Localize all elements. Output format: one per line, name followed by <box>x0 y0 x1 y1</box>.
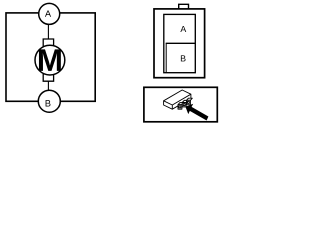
pin B label <box>181 55 186 61</box>
wire A to motor <box>47 24 49 40</box>
inset box <box>144 87 217 122</box>
arrow <box>185 104 208 121</box>
node A <box>39 3 60 24</box>
connector 3d socket block <box>178 98 192 109</box>
pin A label <box>180 26 186 32</box>
connector cavity frame <box>164 14 196 72</box>
connector latch tab <box>179 4 189 9</box>
connector 3d body <box>164 90 191 109</box>
node B <box>38 90 60 112</box>
motor terminal top <box>43 39 53 47</box>
cavity B left wall <box>165 43 167 72</box>
cavity divider <box>166 42 196 44</box>
wire loop <box>6 13 95 101</box>
wire motor to B <box>47 80 49 91</box>
motor terminal bottom <box>43 73 53 81</box>
connector outer body <box>154 9 205 78</box>
motor M1 <box>35 45 65 75</box>
